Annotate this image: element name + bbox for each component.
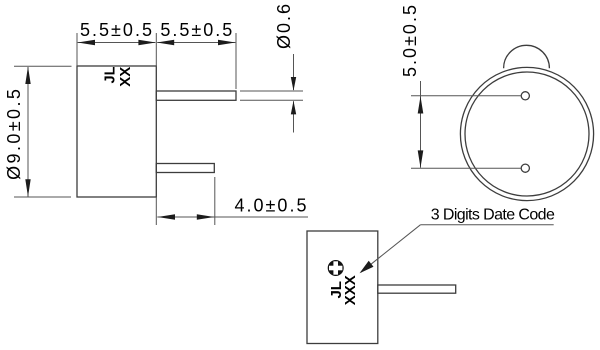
side view: buzzer body outline [77, 66, 156, 197]
dimension Ø9.0±0.5 bottom extension line [14, 196, 71, 198]
side view: upper lead (pin) [156, 91, 236, 100]
arrowhead right of first 5.5 dim [138, 40, 155, 45]
arrowhead up of 5.0 dim [418, 96, 424, 113]
svg-text:5.5±0.5: 5.5±0.5 [160, 20, 234, 40]
svg-text:XXX: XXX [342, 275, 359, 305]
bottom view: polarity mark plus horizontal bar [329, 266, 342, 271]
svg-text:JL: JL [102, 66, 118, 83]
bottom view: polarity mark plus vertical bar [333, 261, 338, 274]
side view: lower lead (pin) [156, 164, 214, 173]
svg-text:5.5±0.5: 5.5±0.5 [80, 20, 154, 40]
bottom view: lead (pin) [378, 285, 456, 293]
dimension 4.0±0.5 right extension line (below lead) [214, 177, 216, 225]
dimension line Ø9.0±0.5 vertical [27, 67, 29, 197]
dimension 5.5±0.5 (first) extension line left [76, 33, 78, 66]
svg-text:Ø9.0±0.5: Ø9.0±0.5 [4, 87, 24, 180]
dimension 5.5±0.5 extension line middle [155, 33, 157, 67]
dimension 5.0±0.5 bottom leader line to lower pin [411, 167, 521, 169]
callout arrowhead [360, 261, 374, 273]
bottom view: polarity mark circle [328, 260, 344, 276]
front view: upper pin hole [521, 92, 529, 100]
arrowhead right of 4.0 dim [197, 214, 215, 219]
dimension line 5.5±0.5 first [78, 42, 156, 44]
arrowhead left of 4.0 dim [158, 214, 176, 219]
svg-text:Ø0.6: Ø0.6 [274, 2, 294, 49]
bottom view: buzzer body outline [307, 231, 378, 344]
front view: outer circle of buzzer [460, 67, 593, 200]
dimension 5.0±0.5 top leader line to upper pin [411, 95, 521, 97]
callout leader diagonal [361, 225, 420, 272]
dimension line 5.0±0.5 vertical [420, 81, 422, 168]
dimension line 5.5±0.5 second [157, 42, 235, 44]
svg-text:3 Digits Date Code: 3 Digits Date Code [431, 206, 555, 223]
front view: top bump arc [504, 45, 550, 68]
dimension 5.5±0.5 (second) extension line right [235, 33, 237, 89]
callout underline [420, 224, 553, 226]
arrowhead pointing up at lead bottom edge [291, 101, 296, 115]
arrowhead right of second 5.5 dim [218, 40, 235, 45]
dimension Ø9.0±0.5 top extension line [14, 65, 72, 67]
arrowhead pointing down at lead top edge [291, 77, 296, 91]
svg-text:XX: XX [117, 67, 134, 87]
arrowhead up of Ø9.0 dim [25, 67, 30, 85]
arrowhead down of 5.0 dim [418, 150, 424, 167]
side view: upper lead edge extension lines [240, 90, 303, 92]
arrowhead left of first 5.5 dim [78, 40, 95, 45]
front view: lower pin hole [521, 164, 529, 172]
svg-text:4.0±0.5: 4.0±0.5 [235, 196, 309, 216]
svg-text:5.0±0.5: 5.0±0.5 [400, 3, 420, 77]
dimension Ø0.6 upper arrow line [293, 54, 295, 90]
dimension line 4.0±0.5 with tail under text [157, 216, 308, 218]
dimension Ø0.6 lower arrow line [293, 101, 295, 132]
arrowhead down of Ø9.0 dim [25, 179, 30, 197]
front view: inner circle of buzzer [465, 72, 589, 196]
arrowhead left of second 5.5 dim [157, 40, 174, 45]
dimension 4.0±0.5 left extension line (below body) [155, 197, 157, 225]
